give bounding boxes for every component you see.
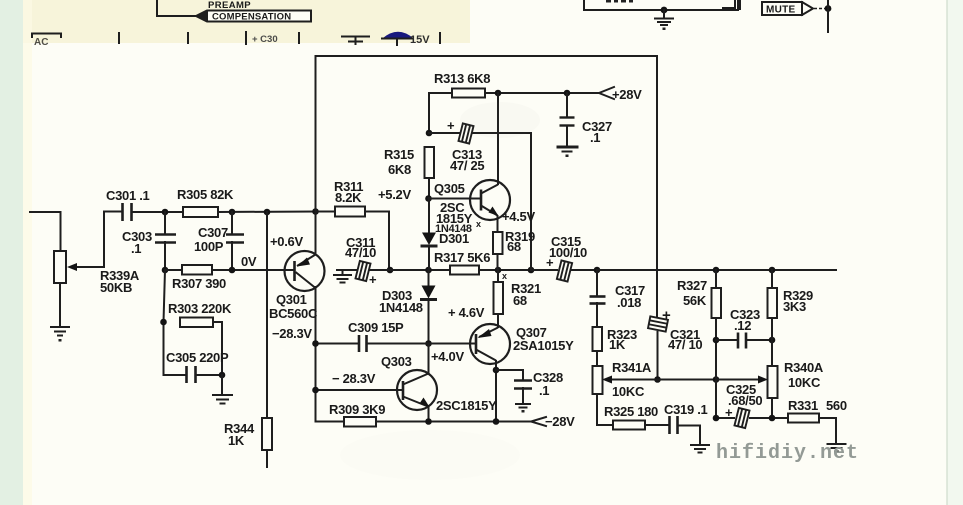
svg-text:+0.6V: +0.6V — [270, 234, 303, 249]
svg-text:R303 220K: R303 220K — [168, 301, 232, 316]
AC terminal bracket — [32, 34, 61, 38]
svg-text:10KC: 10KC — [612, 384, 645, 399]
big feedback box top edge — [316, 55, 658, 57]
C317 column — [596, 270, 598, 296]
svg-text:R325 180: R325 180 — [604, 404, 658, 419]
C327 column — [566, 93, 568, 116]
capacitor C303 — [155, 235, 176, 243]
svg-text:+ 4.6V: + 4.6V — [448, 305, 485, 320]
Q303 collector wire — [428, 344, 430, 374]
capacitor C309 — [359, 335, 367, 352]
wire pot wiper to input node — [72, 212, 122, 268]
wire C315 to node M — [572, 269, 597, 271]
node O2 — [769, 337, 776, 344]
electrolytic capacitor C315 — [557, 260, 572, 281]
wire node L to C315 — [531, 269, 557, 271]
emitter rail to D301 column — [390, 269, 450, 271]
-28V arrow — [531, 417, 546, 426]
big feedback box right edge — [656, 56, 658, 318]
svg-text:56K: 56K — [683, 293, 707, 308]
electrolytic capacitor C321 — [648, 316, 668, 331]
C307 column — [231, 212, 233, 234]
wire C305 right plate to node H — [196, 374, 222, 376]
capacitor C317 — [590, 297, 606, 304]
capacitor C307 — [226, 235, 244, 243]
ground below R339A — [51, 327, 69, 336]
svg-text:COMPENSATION: COMPENSATION — [212, 12, 291, 23]
C303 column — [164, 212, 166, 234]
resistor R305 — [183, 207, 218, 217]
node Z — [654, 376, 661, 383]
wire C301 to node A — [132, 211, 183, 213]
Q307 base wire — [429, 343, 477, 345]
diode D301 — [422, 233, 436, 246]
C323 row left — [716, 339, 737, 341]
text remnants in top right box — [606, 0, 633, 3]
+28V arrow — [599, 87, 614, 99]
resistor R315 — [425, 147, 435, 178]
potentiometer R341A — [593, 366, 603, 394]
node H — [219, 372, 226, 379]
electrolytic capacitor C313 — [458, 123, 473, 143]
bottom rail — [316, 421, 345, 423]
capacitor C328 — [514, 381, 532, 389]
node N — [713, 267, 720, 274]
node M — [594, 267, 601, 274]
R321 column bottom to Q307 emitter — [497, 314, 499, 327]
node Y — [493, 418, 500, 425]
svg-text:R331: R331 — [788, 398, 818, 413]
Q305 collector wire — [497, 93, 499, 184]
svg-text:R315: R315 — [384, 147, 414, 162]
R340A pot bottom — [771, 398, 773, 418]
preamp compensation tag — [196, 11, 311, 22]
svg-text:D301: D301 — [439, 231, 469, 246]
resistor R321 — [494, 282, 504, 314]
D303 column below diode to node T — [428, 299, 430, 344]
svg-text:+4.0V: +4.0V — [431, 349, 464, 364]
node J — [425, 267, 432, 274]
wire node H to ground — [221, 375, 223, 394]
svg-text:68: 68 — [513, 293, 527, 308]
node V — [312, 387, 319, 394]
highlighted capacitor 15V — [383, 32, 413, 38]
node F — [229, 267, 236, 274]
node T — [425, 340, 432, 347]
node G — [160, 319, 167, 326]
resistor R311 — [335, 207, 365, 217]
svg-text:68: 68 — [507, 239, 521, 254]
capacitor C323 — [738, 333, 746, 349]
node L — [528, 267, 535, 274]
corner bracket right of box — [723, 0, 735, 8]
C309 to node T wire — [367, 343, 429, 345]
node Z2 — [713, 376, 720, 383]
junction on box bottom — [661, 7, 668, 14]
wire C311 group on emitter rail — [337, 269, 358, 271]
Q307 collector wire — [495, 361, 497, 422]
svg-text:Q305: Q305 — [434, 181, 465, 196]
svg-text:hifidiy.net: hifidiy.net — [716, 442, 859, 465]
svg-text:+: + — [369, 272, 377, 287]
resistor R309 — [344, 417, 376, 427]
svg-text:+4.5V: +4.5V — [502, 209, 535, 224]
wire R303 to its right node — [213, 322, 222, 375]
potentiometer R339A — [54, 251, 66, 283]
ground below C328 — [516, 404, 530, 408]
svg-text:C307: C307 — [198, 225, 228, 240]
node X2 — [713, 415, 720, 422]
resistor R303 — [180, 318, 213, 328]
node C — [264, 209, 271, 216]
capacitor C305 — [187, 366, 196, 383]
node P — [495, 90, 502, 97]
svg-text:+28V: +28V — [612, 87, 642, 102]
resistor R307 — [182, 265, 212, 275]
svg-text:3K3: 3K3 — [783, 299, 806, 314]
R323 to R341A pot — [596, 351, 598, 366]
big feedback box left edge lower / Q301 collector column — [315, 287, 317, 422]
svg-text:Q303: Q303 — [381, 354, 412, 369]
capacitor symbol in top strip — [342, 37, 369, 45]
svg-text:C301 .1: C301 .1 — [106, 188, 150, 203]
svg-text:100P: 100P — [194, 239, 224, 254]
wire R307 to Q301 base — [212, 269, 294, 271]
wire 0V row: node E to R307 — [165, 269, 182, 271]
node Y2 — [769, 415, 776, 422]
node Q — [564, 90, 571, 97]
faint scan smudges — [340, 430, 520, 480]
C321 column below box edge — [657, 332, 659, 380]
svg-text:R327: R327 — [677, 278, 707, 293]
node B — [229, 209, 236, 216]
svg-text:.018: .018 — [617, 295, 641, 310]
R344 column — [266, 212, 268, 418]
wire R317 to node K — [479, 269, 531, 271]
svg-text:−28.3V: −28.3V — [272, 326, 312, 341]
node K — [495, 267, 502, 274]
capacitor C319 — [670, 416, 678, 434]
svg-text:+5.2V: +5.2V — [378, 187, 411, 202]
D301 column: R315 to base node — [428, 178, 430, 198]
svg-text:560: 560 — [826, 398, 847, 413]
svg-text:1K: 1K — [609, 337, 626, 352]
tick — [187, 33, 189, 43]
node O — [769, 267, 776, 274]
svg-text:BC560C: BC560C — [269, 306, 318, 321]
resistor R329 — [768, 288, 778, 318]
C327 bottom bar — [558, 146, 577, 149]
svg-text:2SA1015Y: 2SA1015Y — [513, 338, 574, 353]
capacitor C327 — [560, 118, 575, 126]
svg-text:8.2K: 8.2K — [335, 190, 362, 205]
svg-text:100/10: 100/10 — [549, 245, 587, 260]
main output rail — [597, 269, 836, 271]
svg-text:.12: .12 — [734, 318, 751, 333]
resistor R323 — [593, 327, 603, 351]
big feedback box left edge upper — [315, 56, 317, 254]
ground below R331 — [828, 444, 846, 452]
tick — [298, 33, 300, 43]
svg-text:.1: .1 — [131, 241, 141, 256]
top right box — [584, 0, 738, 10]
diode D303 — [422, 286, 436, 299]
svg-text:PREAMP: PREAMP — [208, 0, 251, 11]
C323 row right — [747, 339, 772, 341]
resistor R344 — [262, 418, 272, 450]
svg-text:− 28.3V: − 28.3V — [332, 371, 376, 386]
resistor R313 — [452, 89, 485, 98]
wire R305 to feedback column — [218, 211, 316, 214]
R341A wiper row with arrowhead — [608, 379, 716, 381]
svg-text:10KC: 10KC — [788, 375, 821, 390]
wire R325 to C319 — [645, 424, 668, 426]
svg-text:.68/50: .68/50 — [728, 393, 762, 408]
C328 bottom wire to ground — [522, 388, 524, 403]
C325 to node Y2 — [750, 417, 788, 419]
svg-text:.1: .1 — [590, 130, 600, 145]
transistor Q301 — [285, 251, 325, 291]
svg-text:R340A: R340A — [784, 360, 824, 375]
Q305 emitter wire to R319 — [497, 216, 499, 232]
svg-text:15V: 15V — [410, 34, 430, 46]
svg-text:C305 220P: C305 220P — [166, 350, 229, 365]
C309 row: box edge to cap — [316, 343, 359, 345]
svg-text:47/ 25: 47/ 25 — [450, 158, 484, 173]
tick — [245, 32, 247, 44]
resistor R331 — [788, 414, 819, 423]
svg-text:MUTE: MUTE — [766, 5, 796, 16]
node E — [162, 267, 169, 274]
wire R313 to +28V arrow — [485, 92, 599, 94]
svg-text:.1: .1 — [539, 383, 549, 398]
D301 column through diode — [428, 198, 430, 233]
R311 row — [316, 211, 335, 213]
ground below C305 — [213, 395, 232, 404]
wire R311 to down corner — [365, 212, 389, 271]
svg-text:R341A: R341A — [612, 360, 652, 375]
Q303 emitter wire — [428, 407, 430, 422]
electrolytic capacitor C311 — [355, 261, 370, 281]
wire to preamp compensation tag — [157, 0, 197, 16]
C313 row wire right and down column — [473, 133, 531, 270]
svg-text:Q301: Q301 — [276, 292, 307, 307]
resistor R325 — [613, 421, 645, 430]
ground at C311 — [334, 270, 351, 283]
node N2 — [713, 337, 720, 344]
svg-text:47/10: 47/10 — [345, 245, 376, 260]
R313 row wire — [429, 93, 452, 133]
svg-text:R313 6K8: R313 6K8 — [434, 71, 490, 86]
svg-text:6K8: 6K8 — [388, 162, 411, 177]
wire pot R339A to ground — [59, 283, 61, 326]
ground below C319 — [691, 445, 709, 453]
tick — [439, 33, 441, 43]
R321 column top — [497, 270, 499, 282]
svg-text:+: + — [447, 118, 455, 133]
svg-text:x: x — [476, 219, 481, 229]
svg-text:50KB: 50KB — [100, 280, 132, 295]
R303 branch column — [164, 270, 186, 375]
R341A pot bottom to R325 row — [597, 394, 613, 425]
bottom right row: node to C325 — [716, 417, 734, 419]
node D — [312, 208, 319, 215]
Q305 base wire — [429, 198, 482, 200]
svg-text:R317 5K6: R317 5K6 — [434, 250, 490, 265]
node W — [493, 367, 500, 374]
svg-text:R309 3K9: R309 3K9 — [329, 402, 385, 417]
transistor Q305 — [470, 180, 510, 220]
svg-text:C319 .1: C319 .1 — [664, 402, 708, 417]
node I on emitter rail — [387, 267, 394, 274]
wire C319 to ground corner — [678, 426, 700, 445]
resistor R319 — [493, 232, 503, 254]
svg-text:+ C30: + C30 — [252, 34, 278, 45]
svg-text:0V: 0V — [241, 254, 257, 269]
R319 to emitter rail — [497, 254, 499, 270]
node S (Q305 base) — [425, 195, 432, 202]
node A — [162, 209, 169, 216]
C313 row wire left — [429, 132, 459, 134]
svg-text:−28V: −28V — [545, 414, 575, 429]
wire below R344 — [266, 450, 268, 467]
node R — [426, 130, 433, 137]
node X — [425, 418, 432, 425]
svg-text:1K: 1K — [228, 433, 245, 448]
wire R331 to ground — [819, 418, 836, 443]
R340A wiper stub with arrowhead — [716, 379, 762, 381]
svg-text:2SC1815Y: 2SC1815Y — [436, 398, 497, 413]
tick — [118, 33, 120, 43]
Q303 base wire — [316, 389, 404, 391]
mute tag — [762, 2, 802, 15]
potentiometer R340A — [768, 366, 778, 398]
D303 column above diode — [428, 270, 430, 285]
ground under top right box — [655, 10, 673, 25]
transistor Q303 — [397, 370, 437, 410]
svg-text:AC: AC — [34, 37, 48, 48]
svg-text:x: x — [502, 271, 507, 281]
svg-text:R307 390: R307 390 — [172, 276, 226, 291]
svg-text:R305 82K: R305 82K — [177, 187, 234, 202]
wire from mute to node — [814, 8, 826, 10]
svg-text:1N4148: 1N4148 — [379, 300, 423, 315]
input wire stub — [30, 212, 61, 251]
wire node W to C328 — [496, 370, 523, 380]
svg-text:C309 15P: C309 15P — [348, 320, 404, 335]
wire down from mute node — [827, 0, 829, 32]
resistor R317 — [450, 266, 479, 275]
wire R309 to -28V arrow — [376, 421, 531, 423]
node U — [312, 340, 319, 347]
svg-text:+: + — [662, 307, 671, 324]
electrolytic capacitor C325 — [734, 408, 749, 428]
R327 column — [715, 270, 717, 288]
transistor Q307 — [470, 324, 510, 364]
capacitor C301 — [123, 203, 132, 221]
resistor R327 — [712, 288, 722, 318]
R329 column — [771, 270, 773, 288]
svg-text:47/ 10: 47/ 10 — [668, 337, 702, 352]
